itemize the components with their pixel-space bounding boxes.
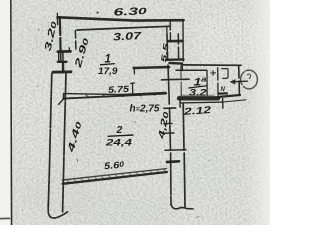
room 2 fraction bar xyxy=(108,135,134,136)
east band tick y41 xyxy=(168,40,182,43)
partition 5.75 upper line xyxy=(65,92,167,94)
svg-text:3.2: 3.2 xyxy=(189,88,207,99)
balcony 1a east wall xyxy=(238,66,241,95)
south wall hatch xyxy=(67,169,166,183)
entrance arrow shaft xyxy=(234,80,248,83)
dim 2.12 line xyxy=(180,101,223,104)
balcony 1a top wall left xyxy=(170,62,183,65)
svg-text:N: N xyxy=(221,87,226,93)
niche bar 1 tick xyxy=(68,48,70,52)
partition 5.75 dim tick xyxy=(131,83,135,93)
niche bar 3 xyxy=(53,70,71,73)
dim 3.07 line (room 1 top) xyxy=(77,26,169,30)
niche bar 2 xyxy=(58,61,67,63)
partition rooms 1-2 divider xyxy=(134,67,169,68)
dim 6.30 left tick xyxy=(56,14,58,25)
partition 5.75 tail xyxy=(59,99,64,105)
south wall lower line xyxy=(63,172,167,184)
niche vertical duct xyxy=(62,63,64,72)
balcony 1a bottom wall thick xyxy=(179,96,218,100)
speck bottom right xyxy=(196,216,200,219)
room 1a fraction bar xyxy=(189,86,208,88)
east band tick y133 xyxy=(163,132,174,134)
svg-text:17,9: 17,9 xyxy=(98,66,118,77)
east band tick y123.5 xyxy=(164,122,172,124)
speck right mid xyxy=(208,159,212,161)
bottom left corner mark xyxy=(0,217,10,219)
paper grain noise xyxy=(0,0,270,225)
west wall lower outer line xyxy=(48,74,52,207)
east band tick y161.5 xyxy=(167,160,179,163)
south wall upper line xyxy=(63,169,167,180)
dim 2.12 left tick xyxy=(179,97,181,107)
svg-text:5.75: 5.75 xyxy=(108,84,131,95)
svg-text:24,4: 24,4 xyxy=(105,138,133,149)
partition 5.75 left joint xyxy=(63,93,65,99)
dim 6.30 right drop line xyxy=(182,20,184,61)
balcony 1a bottom wall extension xyxy=(218,95,240,97)
balcony 1a top wall right xyxy=(182,64,241,66)
page border line xyxy=(10,0,13,225)
balcony 1a west jamb xyxy=(180,66,183,95)
niche bar 1 xyxy=(58,50,71,53)
entrance arrow head xyxy=(230,80,235,85)
closet plus mark xyxy=(211,71,216,76)
svg-text:h=2,75: h=2,75 xyxy=(130,104,160,115)
paper mottling blotches xyxy=(17,10,265,230)
speck near room 2 xyxy=(134,121,136,123)
room 1 fraction bar xyxy=(100,64,115,65)
partition 5.75 lower line xyxy=(63,94,166,99)
dim 2.12 extension right xyxy=(223,100,246,102)
speck near 3.20 xyxy=(38,29,40,31)
east outer hatch line upper xyxy=(177,34,179,59)
west wall lower inner line xyxy=(63,74,66,213)
west wall bottom break curve xyxy=(48,204,67,218)
closet partition line 1 xyxy=(206,70,208,95)
north wall inner face drop xyxy=(169,22,171,42)
paper background xyxy=(0,0,270,225)
speck left margin xyxy=(37,85,38,86)
dim 2.12 right tick xyxy=(222,98,224,108)
closet hatch bottom xyxy=(219,92,228,94)
dim 3.07 right tick xyxy=(166,27,168,34)
east outer wall line lower xyxy=(183,104,185,207)
balcony 1a bottom wall upper faint xyxy=(180,94,214,96)
dim 6.30 line (north wall) xyxy=(58,17,184,20)
balcony 1a top inner line xyxy=(176,69,207,71)
partition 5.75 hatch xyxy=(86,94,155,97)
lighter margin strips xyxy=(0,0,10,225)
svg-text:2: 2 xyxy=(116,124,123,136)
speck near 6.30 xyxy=(97,12,99,14)
east band tick y108 xyxy=(164,107,176,109)
speck comma above south wall xyxy=(77,160,78,162)
entrance circle xyxy=(241,70,258,89)
niche hatch block xyxy=(59,53,63,61)
east band tick y59.5 xyxy=(166,58,184,61)
svg-text:2.12: 2.12 xyxy=(182,105,212,118)
closet door bracket xyxy=(222,69,228,79)
west wall upper xyxy=(59,17,62,51)
room 1 west partition xyxy=(74,31,77,50)
east wall bottom break curve xyxy=(171,205,193,210)
balcony 1a top jog xyxy=(181,64,183,71)
divider left tick xyxy=(133,67,135,74)
east inner wall line xyxy=(167,34,171,205)
svg-text:3.07: 3.07 xyxy=(113,30,143,44)
closet partition line 2 xyxy=(217,68,219,96)
east band tick y79.5 xyxy=(162,78,190,81)
east band tick y150 xyxy=(165,149,186,152)
entrance circle squiggle xyxy=(247,74,250,78)
